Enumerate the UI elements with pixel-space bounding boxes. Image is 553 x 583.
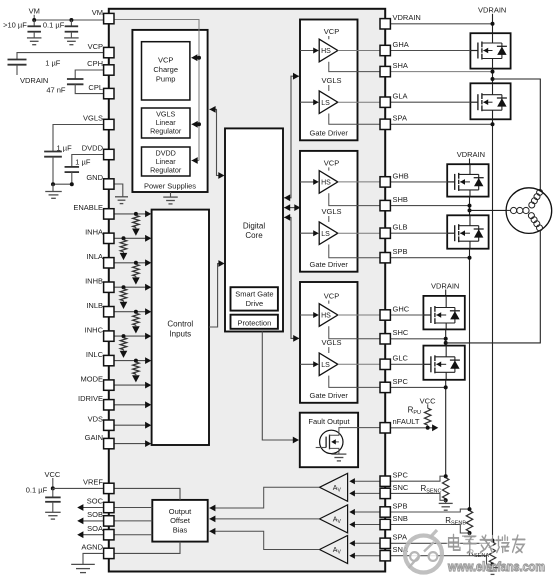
svg-text:GND: GND xyxy=(86,173,103,182)
svg-text:VDS: VDS xyxy=(88,414,103,423)
svg-text:Core: Core xyxy=(245,231,263,240)
svg-text:>10 µF: >10 µF xyxy=(3,20,27,29)
svg-text:VREF: VREF xyxy=(83,478,103,487)
svg-text:INLC: INLC xyxy=(86,350,104,359)
svg-text:VCP: VCP xyxy=(158,56,173,65)
svg-text:VM: VM xyxy=(92,8,103,17)
svg-text:Charge: Charge xyxy=(153,65,178,74)
svg-text:SPB: SPB xyxy=(393,247,408,256)
svg-text:VM: VM xyxy=(29,7,40,16)
svg-text:DVDD: DVDD xyxy=(82,144,104,153)
svg-text:HS: HS xyxy=(321,313,331,320)
svg-text:1 µF: 1 µF xyxy=(75,157,91,166)
svg-text:GAIN: GAIN xyxy=(85,433,103,442)
svg-text:0.1 µF: 0.1 µF xyxy=(26,486,48,495)
svg-text:SPC: SPC xyxy=(393,471,409,480)
svg-text:INHB: INHB xyxy=(85,276,103,285)
svg-text:Inputs: Inputs xyxy=(169,330,191,339)
svg-text:VDRAIN: VDRAIN xyxy=(478,6,506,15)
svg-text:ENABLE: ENABLE xyxy=(73,203,103,212)
svg-text:Regulator: Regulator xyxy=(150,166,182,175)
svg-text:VGLS: VGLS xyxy=(321,338,341,347)
svg-text:0.1 µF: 0.1 µF xyxy=(43,20,65,29)
svg-text:LS: LS xyxy=(321,362,330,369)
svg-text:VGLS: VGLS xyxy=(321,76,341,85)
svg-text:LS: LS xyxy=(321,100,330,107)
svg-text:SOA: SOA xyxy=(87,524,103,533)
svg-text:Gate Driver: Gate Driver xyxy=(310,260,349,269)
svg-text:SNC: SNC xyxy=(393,483,409,492)
svg-text:Drive: Drive xyxy=(246,299,264,308)
svg-text:GHA: GHA xyxy=(393,40,409,49)
svg-text:SOB: SOB xyxy=(87,510,103,519)
svg-text:INLB: INLB xyxy=(86,301,103,310)
svg-text:1 µF: 1 µF xyxy=(57,143,73,152)
svg-text:CPH: CPH xyxy=(87,59,103,68)
svg-text:INLA: INLA xyxy=(86,252,103,261)
svg-text:SHC: SHC xyxy=(393,328,409,337)
svg-text:Gate Driver: Gate Driver xyxy=(310,391,349,400)
svg-text:1 µF: 1 µF xyxy=(45,58,61,67)
svg-text:VCP: VCP xyxy=(324,27,339,36)
svg-text:VCP: VCP xyxy=(324,158,339,167)
svg-text:SPC: SPC xyxy=(393,377,409,386)
svg-text:www.elecfans.com: www.elecfans.com xyxy=(447,559,545,574)
svg-text:Gate Driver: Gate Driver xyxy=(310,129,349,138)
svg-text:Digital: Digital xyxy=(243,222,265,231)
svg-text:HS: HS xyxy=(321,180,331,187)
svg-text:GLA: GLA xyxy=(393,92,408,101)
svg-text:VDRAIN: VDRAIN xyxy=(431,281,459,290)
svg-text:SPA: SPA xyxy=(393,533,407,542)
svg-text:CPL: CPL xyxy=(88,83,103,92)
svg-text:VCC: VCC xyxy=(420,396,436,405)
svg-text:SHB: SHB xyxy=(393,195,408,204)
svg-text:Regulator: Regulator xyxy=(150,127,182,136)
svg-text:LS: LS xyxy=(321,231,330,238)
svg-text:VCC: VCC xyxy=(44,470,60,479)
svg-text:SNB: SNB xyxy=(393,514,408,523)
svg-text:VDRAIN: VDRAIN xyxy=(20,76,48,85)
svg-text:Control: Control xyxy=(167,320,193,329)
svg-text:VDRAIN: VDRAIN xyxy=(393,13,421,22)
svg-text:SPB: SPB xyxy=(393,501,408,510)
svg-text:nFAULT: nFAULT xyxy=(393,417,420,426)
svg-text:Bias: Bias xyxy=(173,526,188,535)
svg-text:SOC: SOC xyxy=(87,497,104,506)
svg-text:GLC: GLC xyxy=(393,354,409,363)
svg-text:Offset: Offset xyxy=(170,516,191,525)
svg-text:AGND: AGND xyxy=(81,543,103,552)
svg-text:INHA: INHA xyxy=(85,228,103,237)
svg-text:HS: HS xyxy=(321,48,331,55)
svg-text:Power Supplies: Power Supplies xyxy=(144,181,196,190)
svg-text:Pump: Pump xyxy=(156,75,176,84)
svg-text:GHB: GHB xyxy=(393,171,409,180)
svg-text:IDRIVE: IDRIVE xyxy=(78,394,103,403)
svg-text:Fault Output: Fault Output xyxy=(308,417,350,426)
svg-text:Output: Output xyxy=(169,507,192,516)
svg-text:INHC: INHC xyxy=(85,325,104,334)
svg-text:VCP: VCP xyxy=(88,42,103,51)
svg-text:VGLS: VGLS xyxy=(321,207,341,216)
svg-text:47 nF: 47 nF xyxy=(46,85,66,94)
svg-text:GLB: GLB xyxy=(393,223,408,232)
svg-text:Protection: Protection xyxy=(238,318,272,327)
svg-text:MODE: MODE xyxy=(81,374,104,383)
svg-text:VDRAIN: VDRAIN xyxy=(457,150,485,159)
svg-text:VGLS: VGLS xyxy=(83,114,103,123)
svg-text:Smart Gate: Smart Gate xyxy=(235,290,273,299)
svg-text:SHA: SHA xyxy=(393,61,408,70)
svg-text:VCP: VCP xyxy=(324,292,339,301)
svg-text:SPA: SPA xyxy=(393,114,407,123)
svg-text:GHC: GHC xyxy=(393,304,410,313)
